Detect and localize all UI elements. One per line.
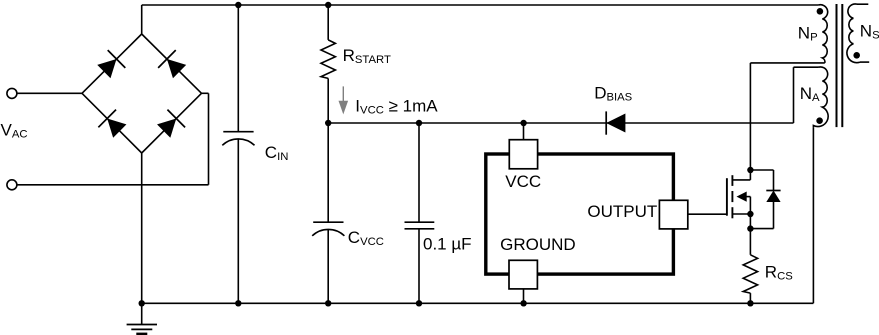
- polarity dot NS: [853, 52, 860, 59]
- capacitor CVCC bottom lead: [327, 229, 329, 303]
- wire OUTPUT pin to MOSFET gate: [688, 213, 727, 215]
- controller IC box U1: [486, 154, 674, 274]
- wire VCC node up to NA top: [793, 67, 795, 123]
- wire NS bottom stub: [860, 61, 869, 63]
- diode D3 (bottom vertex to left vertex): [107, 118, 126, 137]
- svg-text:OUTPUT: OUTPUT: [587, 202, 657, 221]
- capacitor CVCC plates: [313, 221, 343, 223]
- capacitor CIN bottom lead: [237, 139, 239, 303]
- bridge rectifier diamond edge BL: [82, 93, 142, 153]
- current arrow IVCC (gray): [342, 86, 344, 102]
- mosfet Q1 gate bar: [726, 178, 728, 216]
- transformer primary winding NP: [819, 5, 828, 63]
- diode D4 (bottom vertex to right vertex): [157, 118, 176, 137]
- svg-text:DBIAS: DBIAS: [594, 83, 632, 103]
- wire right riser (NA bottom to ground rail): [812, 127, 814, 303]
- body diode branch wires: [750, 169, 773, 171]
- svg-text:VAC: VAC: [1, 121, 28, 141]
- wire terminal-top to bridge left vertex: [17, 92, 82, 94]
- mosfet Q1 body arrow: [737, 192, 747, 202]
- bridge rectifier diamond edge TL: [82, 34, 142, 93]
- wire bridge bottom vertex to ground rail: [141, 153, 143, 303]
- wire VCC pin to VCC node: [523, 123, 525, 140]
- svg-text:NP: NP: [798, 24, 818, 44]
- body diode symbol: [766, 190, 780, 192]
- mosfet Q1 channel segments: [731, 175, 733, 186]
- capacitor 0.1uF bottom lead: [418, 229, 420, 303]
- wire bridge top vertex to top rail: [141, 5, 143, 34]
- junction dot RSTART top: [325, 2, 331, 8]
- top rail wire: [142, 4, 819, 6]
- pin box OUTPUT: [659, 200, 687, 229]
- svg-text:RCS: RCS: [765, 263, 793, 283]
- mosfet Q1 drain lead: [749, 63, 751, 180]
- capacitor 0.1uF top lead: [418, 123, 420, 222]
- svg-text:0.1 µF: 0.1 µF: [423, 234, 472, 253]
- svg-text:IVCC ≥ 1mA: IVCC ≥ 1mA: [355, 97, 438, 117]
- junction dot ground node: [139, 300, 145, 306]
- junction dot CVCC bottom: [325, 300, 331, 306]
- wire NP bottom to drain: [750, 62, 824, 64]
- wire bridge right vertex stub: [202, 92, 209, 94]
- diode D2 (right vertex to top vertex): [167, 59, 186, 78]
- resistor RCS: [743, 255, 757, 293]
- wire VCC node horizontal: [328, 122, 793, 124]
- junction dot VCC node at RSTART/CVCC: [325, 120, 331, 126]
- pin box GROUND: [509, 260, 537, 289]
- diode DBIAS (cathode bar): [605, 111, 607, 134]
- bridge rectifier diamond edge BR: [142, 93, 202, 153]
- junction dot RCS bottom: [747, 300, 753, 306]
- capacitor CIN plates: [223, 131, 253, 133]
- terminal bottom (VAC -): [7, 180, 17, 190]
- wire terminal-bottom to bridge right branch: [17, 184, 209, 186]
- wire RSTART to VCC node: [327, 78, 329, 123]
- svg-text:GROUND: GROUND: [500, 235, 576, 254]
- junction dot drain node: [747, 167, 753, 173]
- polarity dot NA: [816, 117, 823, 124]
- capacitor CVCC top lead: [327, 123, 329, 222]
- wire GROUND pin to ground rail: [523, 289, 525, 304]
- wire NS top stub: [857, 3, 868, 5]
- terminal top (VAC +): [7, 88, 17, 98]
- junction dot VCC node at VCC pin: [520, 120, 526, 126]
- wire source node to RCS: [749, 214, 751, 255]
- transformer secondary winding NS: [847, 4, 860, 63]
- svg-text:CIN: CIN: [265, 143, 289, 163]
- transformer core: [836, 4, 838, 127]
- wire top rail to RSTART: [327, 5, 329, 40]
- junction dot source node: [747, 211, 753, 217]
- svg-text:RSTART: RSTART: [343, 46, 391, 66]
- svg-text:VCC: VCC: [505, 172, 541, 191]
- junction dot source/body-diode node: [747, 225, 753, 231]
- junction dot CIN bottom: [235, 300, 241, 306]
- junction dot VCC node at 0.1uF: [416, 120, 422, 126]
- mosfet Q1 source lead: [732, 213, 750, 215]
- transformer aux winding NA: [813, 67, 828, 127]
- junction dot CIN top: [235, 2, 241, 8]
- junction dot GROUND pin at rail: [520, 300, 526, 306]
- diode D1 (left vertex to top vertex): [97, 59, 116, 78]
- polarity dot NP: [817, 8, 824, 15]
- pin box VCC: [509, 140, 537, 169]
- bridge rectifier diamond edge TR: [142, 34, 202, 93]
- svg-text:CVCC: CVCC: [348, 228, 384, 248]
- capacitor CIN top lead: [237, 5, 239, 132]
- wire bridge right vertex down to VAC bottom: [208, 93, 210, 185]
- capacitor 0.1uF plates: [405, 221, 435, 223]
- bottom ground rail wire: [142, 302, 814, 304]
- wire RCS to ground rail: [749, 293, 751, 303]
- ground symbol: [141, 303, 143, 324]
- junction dot 0.1uF bottom: [416, 300, 422, 306]
- svg-text:NS: NS: [860, 22, 879, 42]
- svg-text:NA: NA: [800, 84, 820, 104]
- diode DBIAS (triangle): [606, 114, 625, 133]
- resistor RSTART: [321, 40, 335, 79]
